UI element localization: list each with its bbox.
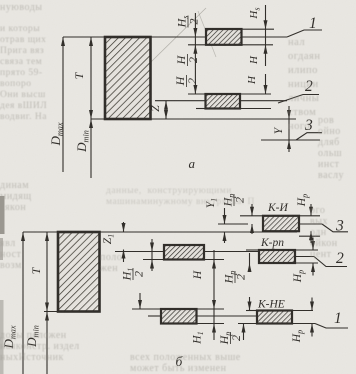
dimension Hp (K-NE, b) [311,298,313,311]
leader 3 (a) [296,133,322,140]
label H/2 lower (a) [173,75,199,87]
label H1/2 (b) [120,268,146,282]
scan crease line 2 [198,11,216,57]
rect1 bottom extension left [188,44,206,46]
K-RP top extension left [246,249,259,251]
K-NE top ext left [246,310,257,312]
d_min level line (b) [44,311,100,313]
scan crease line [104,8,206,108]
NE top ext right [197,308,225,310]
line D_max level (a) [63,36,287,38]
gauge PR tolerance field (rect 2, a) [206,94,241,109]
rect2 top extension left [188,93,206,95]
small column to NE top (b) [139,293,141,309]
page edge smudge left [0,196,5,234]
rect2 bottom extension left [196,108,206,110]
scan noise overlay [0,0,1,1]
K-I top extension right [299,215,320,217]
Z1 dimension (b) [123,222,125,232]
PR bottom ext right [204,259,224,261]
rect2 top extension right [240,93,271,95]
PR bottom ext left [143,259,164,261]
K-RP bottom extension right [295,262,318,264]
dimension Hp (K-RP, b) [312,238,314,251]
rect2 bottom extension right [240,108,271,110]
dimension line T / D_min (b) [46,232,48,374]
dimension Z (a) [164,101,168,110]
hole tolerance field T (diagram a, large hatched rect) [105,37,151,119]
dimension Hp/2 (K-I, b) [251,204,253,216]
label Hp/2 lower (b) [217,332,243,346]
leader 2 (a) [278,95,319,104]
d_max extension right (skewed scan) [299,235,320,237]
rect1 top extension right [242,28,275,30]
rect1 bottom extension right [242,44,274,46]
counter-gauge K-RP tolerance field [259,250,295,263]
dimension Hp (K-I, b) [310,204,312,216]
center line row 4 (b) [148,315,160,317]
K-RP center ext right [295,256,314,258]
leader 3 (b) [322,224,348,232]
label Hp/2 middle (b) [222,271,248,285]
worn boundary line (b) [218,223,248,225]
label H/2 upper (a) [174,54,200,66]
dimension Hs/2 column (a) [194,13,196,94]
leader 2 (b) [314,257,347,267]
H1 lower arrow [212,324,216,333]
dimension Y (a) [288,106,290,152]
arrow to rect2 top line [193,85,197,94]
counter-gauge K-I tolerance field [263,216,299,231]
H1/2 column (b) [151,239,153,271]
NE bottom ext right [197,323,225,325]
dimension line D_max (diagram a) [62,37,64,172]
NE top ext left [132,308,161,310]
dimension line T / D_min (diagram a) [90,37,92,178]
line D_min level (a) [91,118,296,120]
shaft tolerance field T (diagram b, large hatched rect) [58,232,100,312]
dimension Y1 (b) [224,208,226,224]
leader 1 (a) [287,30,322,37]
dimension line D_max (b) [22,232,24,374]
working gauge NE field (b) [161,309,197,324]
line through center of rect 2 (a) [155,100,287,102]
K-NE bottom ext right [292,323,315,325]
leader 1 (b) [315,324,348,329]
K-I top extension left [240,215,263,217]
K-NE top ext right [292,310,313,312]
label Hp/2 row1 [221,194,247,208]
center line of PR field (b) [115,251,259,253]
H dimension column (b) [213,250,215,340]
label Hs/2 (a) [175,16,201,29]
Hp/2 column below K-NE (b) [243,324,245,341]
worn boundary line (a) [261,139,320,141]
K-NE bottom ext left [238,323,257,325]
dimension Hs column (a) [265,5,267,66]
Hp/2 column middle (b) [249,253,251,272]
counter-gauge K-NE tolerance field [257,311,292,324]
d_max level line (b) [23,231,297,233]
K-RP top extension right [295,249,318,251]
